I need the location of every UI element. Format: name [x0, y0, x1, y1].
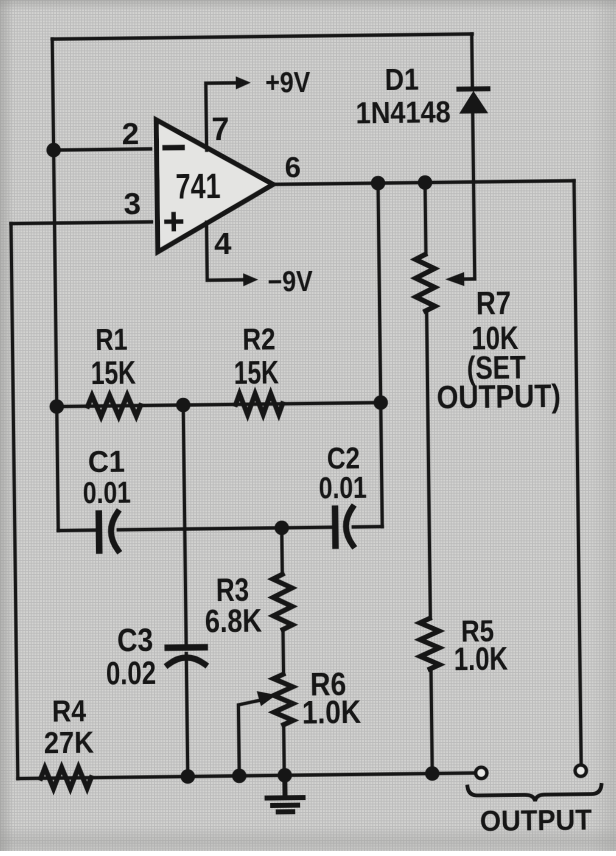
node: bottom/ground junction [277, 768, 292, 783]
wire: output from pin 6 [273, 181, 574, 185]
wire: far-left vertical [11, 224, 18, 779]
svg-text:15K: 15K [234, 354, 279, 391]
node: pin2 junction [46, 143, 61, 158]
-9V supply arrow [207, 221, 314, 299]
wire: R3/R6 vertical [281, 528, 285, 775]
wire: C1-C2 wire [58, 527, 382, 531]
svg-text:1.0K: 1.0K [302, 694, 361, 731]
svg-text:0.01: 0.01 [319, 470, 367, 506]
svg-text:D1: D1 [385, 62, 419, 97]
svg-text:+9V: +9V [265, 67, 311, 100]
wire: right vertical to output terminal [574, 181, 581, 763]
node: bottom/R5 junction [425, 766, 440, 781]
svg-text:4: 4 [214, 226, 232, 261]
resistor R3 6.8K [204, 571, 292, 639]
svg-text:OUTPUT): OUTPUT) [436, 378, 560, 416]
node: pin6/R2 junction [371, 176, 386, 191]
svg-text:6.8K: 6.8K [205, 603, 262, 640]
node: bottom/R6-wiper junction [232, 769, 247, 784]
capacitor C3 0.02 [105, 621, 205, 691]
svg-text:6: 6 [285, 152, 302, 184]
output terminal left [476, 767, 487, 778]
wire: diode to R7 wiper [458, 113, 475, 279]
output terminal right [575, 765, 586, 776]
svg-text:−9V: −9V [268, 266, 314, 299]
svg-text:3: 3 [123, 186, 141, 221]
wire: mid vertical through C3 [183, 405, 188, 776]
node: pin6/R7 junction [418, 175, 433, 190]
svg-text:7: 7 [211, 111, 229, 147]
resistor R4 27K [40, 693, 95, 789]
resistor R2 15K [233, 321, 282, 415]
svg-text:1N4148: 1N4148 [355, 94, 450, 130]
resistor R1 15K [87, 322, 141, 417]
wire: bottom ground rail [18, 773, 473, 779]
svg-text:R2: R2 [242, 321, 275, 356]
node: C-wire/R3 junction [274, 521, 289, 536]
svg-text:0.02: 0.02 [106, 655, 156, 692]
wire: pin 2 input [54, 149, 151, 150]
node: R1-R2 junction [176, 398, 191, 413]
wire: R7/R5 vertical [425, 183, 432, 774]
node: R2 right junction [373, 395, 388, 410]
svg-text:OUTPUT: OUTPUT [480, 805, 593, 838]
svg-text:R7: R7 [476, 285, 511, 321]
svg-text:C3: C3 [117, 622, 153, 658]
wire: R2 right vertical (pin6 to C2) [378, 183, 382, 526]
svg-text:741: 741 [175, 167, 220, 207]
potentiometer R6 1.0K [238, 666, 362, 776]
svg-text:R4: R4 [52, 693, 87, 728]
wire: R1-R2 wire [57, 403, 381, 407]
svg-text:R1: R1 [95, 322, 127, 357]
wire: pin 3 input [11, 222, 151, 224]
wire: top feedback wire [52, 34, 472, 39]
wire: diode branch vertical [470, 34, 474, 87]
op-amp U1 741 [156, 118, 274, 251]
capacitor C2 0.01 [318, 440, 367, 546]
node: R1 left junction [49, 399, 64, 414]
potentiometer R7 10K [415, 253, 560, 416]
diode D1 [355, 61, 488, 131]
node: bottom/C3 junction [180, 769, 195, 784]
capacitor C1 0.01 [82, 444, 131, 551]
svg-text:15K: 15K [91, 355, 136, 392]
resistor R5 1.0K [420, 613, 508, 678]
wire: left vertical from top wire to C-wire [52, 39, 58, 530]
svg-text:1.0K: 1.0K [454, 641, 508, 678]
svg-text:0.01: 0.01 [83, 475, 131, 511]
+9V supply arrow [206, 67, 312, 150]
brace under output [467, 785, 601, 802]
svg-text:27K: 27K [44, 725, 95, 761]
ground [267, 775, 303, 812]
svg-text:2: 2 [122, 116, 140, 151]
